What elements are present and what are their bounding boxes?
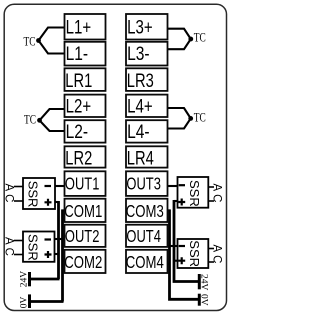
svg-text:OUT3: OUT3 bbox=[126, 174, 160, 194]
svg-text:L3-: L3- bbox=[127, 43, 150, 65]
svg-text:L4+: L4+ bbox=[127, 95, 153, 117]
svg-text:OUT2: OUT2 bbox=[65, 226, 100, 246]
svg-text:TC: TC bbox=[194, 109, 206, 124]
svg-text:OUT4: OUT4 bbox=[126, 226, 161, 246]
svg-text:TC: TC bbox=[194, 30, 206, 45]
svg-text:L1-: L1- bbox=[66, 43, 89, 65]
svg-text:L1+: L1+ bbox=[66, 17, 92, 39]
svg-text:COM4: COM4 bbox=[126, 252, 164, 272]
svg-text:TC: TC bbox=[24, 111, 36, 126]
svg-text:OUT1: OUT1 bbox=[65, 174, 100, 194]
svg-text:SSR: SSR bbox=[26, 181, 41, 208]
svg-text:L2-: L2- bbox=[66, 121, 89, 143]
svg-text:L2+: L2+ bbox=[66, 95, 92, 117]
svg-text:LR4: LR4 bbox=[127, 147, 154, 169]
svg-text:COM3: COM3 bbox=[126, 201, 164, 221]
svg-text:COM2: COM2 bbox=[64, 252, 102, 272]
svg-text:SSR: SSR bbox=[187, 240, 202, 267]
svg-text:AC: AC bbox=[3, 237, 15, 259]
svg-text:LR2: LR2 bbox=[65, 147, 92, 169]
svg-text:COM1: COM1 bbox=[64, 201, 102, 221]
svg-text:L3+: L3+ bbox=[127, 17, 153, 39]
svg-text:LR1: LR1 bbox=[65, 70, 92, 92]
svg-text:0V: 0V bbox=[198, 294, 208, 306]
svg-text:L4-: L4- bbox=[127, 121, 150, 143]
svg-text:TC: TC bbox=[24, 34, 36, 49]
svg-text:24V: 24V bbox=[198, 274, 208, 291]
svg-text:0V: 0V bbox=[20, 297, 30, 309]
svg-text:SSR: SSR bbox=[26, 234, 41, 261]
svg-text:SSR: SSR bbox=[187, 180, 202, 207]
svg-text:LR3: LR3 bbox=[127, 70, 154, 92]
svg-text:AC: AC bbox=[3, 184, 15, 206]
svg-text:24V: 24V bbox=[20, 271, 30, 288]
